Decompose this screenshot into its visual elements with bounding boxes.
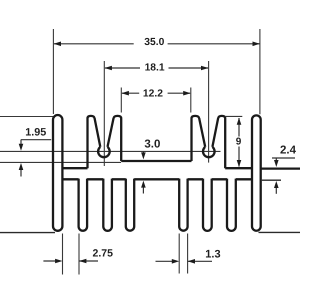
arrowhead 2.4 down [274,160,279,167]
clamp2 circle [203,147,215,157]
arrowhead 35.0 left [54,42,61,47]
extension line 18.1 right / centerline clamp2 [208,61,210,163]
web bottom segments [62,178,252,180]
arrowhead 3.0 down [141,152,146,159]
clamp2 right fin [212,116,225,168]
dimension line 12.2 [122,92,190,94]
arrowheads [19,42,279,264]
recess floor center [121,160,191,162]
channel floor left [62,167,87,169]
reference line 9 top [226,115,243,117]
svg-text:2.4: 2.4 [280,145,297,157]
reference line base bottom right [259,231,301,233]
dimension lines [21,44,295,261]
dimension line 1.3 [156,260,213,262]
reference line fin-top level left [0,116,53,118]
bottom fin 2 [79,179,88,231]
svg-text:18.1: 18.1 [145,63,165,74]
dimension line 18.1 [105,67,208,69]
leader line 2.4 [272,158,295,161]
svg-text:1.95: 1.95 [25,126,46,138]
arrowhead 12.2 right [183,91,190,96]
svg-text:1.3: 1.3 [205,248,220,260]
bottom fin 5 [179,179,187,231]
arrow shaft 3.0 upper [142,151,144,154]
reference line base bottom left [0,232,55,234]
bottom fin 6 [203,179,212,231]
arrowhead 3.0 up [141,181,146,188]
web top extension right [261,167,300,169]
arrowhead 2.75 left [79,259,86,264]
arrowhead 9 up [237,118,242,125]
leader line 1.95 [21,140,51,146]
arrowhead 2.75 right [55,259,62,264]
bottom fin 4 [126,179,134,231]
extension line 35.0 left [52,29,54,114]
reference line 1.95 lower [0,161,121,163]
thin extension / reference lines [0,29,260,275]
arrowhead 18.1 left [105,66,112,71]
extension line 2.75 right [78,234,80,275]
reference line 1.95 upper [0,150,221,152]
arrow shaft 3.0 lower [142,187,144,194]
extension line 35.0 right [259,29,261,114]
arrowhead 1.3 right [172,259,179,264]
arrow shaft 2.4 lower [275,187,277,194]
dimension line 35.0 [54,43,260,45]
svg-text:9: 9 [236,137,242,148]
svg-text:3.0: 3.0 [144,139,160,151]
clamp1 left fin [88,116,101,168]
bottom fin 7 [227,179,236,231]
svg-text:12.2: 12.2 [143,88,163,99]
arrowhead 35.0 right [253,42,260,47]
arrowhead 18.1 right [201,66,208,71]
svg-text:2.75: 2.75 [93,248,114,260]
arrowhead 1.95 down [19,144,24,151]
arrowhead 12.2 left [122,91,129,96]
extension line 1.3 right [187,234,189,274]
arrowhead 9 down [237,160,242,167]
clamp1 right fin [108,116,122,161]
clamp2 left fin [192,116,206,161]
reference line 2.4 lower [262,179,281,181]
extension line 12.2 right [190,88,192,113]
bottom fin 3 [103,179,112,231]
arrow shaft 1.95 lower [20,169,22,177]
outer fin left (tall) [53,115,62,231]
extension line 12.2 left [120,88,122,113]
clamp1 circle [98,147,110,157]
dimension texts [25,37,296,260]
outer fin right (tall) [252,115,261,230]
arrowhead 1.95 up [19,163,24,170]
arrowhead 1.3 left [188,259,195,264]
dimension line 9 [238,118,240,167]
channel floor right [225,167,252,169]
extension line 2.75 left [62,234,64,275]
heatsink profile [53,115,300,231]
extension line 18.1 left / centerline clamp1 [103,61,105,166]
base-bottom reference lines [0,180,300,232]
svg-text:35.0: 35.0 [144,37,164,48]
arrowhead 2.4 up [274,181,279,188]
extension line 1.3 left [178,234,180,274]
dimension line 2.75 [43,260,98,262]
